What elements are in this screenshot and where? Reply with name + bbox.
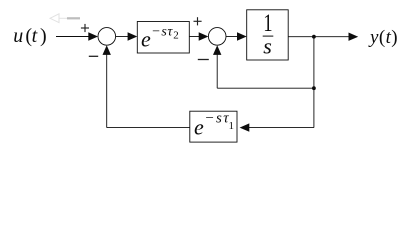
wire integrator to output: [288, 36, 350, 38]
svg-text:−sτ: −sτ: [151, 25, 173, 40]
svg-text:1: 1: [229, 120, 235, 132]
arrowhead into block tau2: [128, 32, 138, 40]
wire block tau2 to summing junction S2: [189, 36, 200, 38]
wire S1 to block tau2: [116, 36, 130, 38]
svg-text:2: 2: [173, 30, 179, 42]
svg-text:y(t): y(t): [368, 27, 398, 48]
arrowhead into S2: [199, 32, 209, 40]
integrator block 1/s: [247, 10, 289, 60]
block e^-s*tau1: [190, 111, 237, 142]
minus sign at S1: [89, 55, 98, 57]
watermark dash (faint): [67, 17, 80, 19]
watermark cursor arrow (faint): [50, 14, 67, 23]
inner feedback wire vertical up to S2: [216, 53, 218, 89]
output arrowhead: [349, 33, 359, 41]
inner feedback wire horizontal: [217, 87, 314, 89]
plus sign at S2: [194, 17, 202, 25]
svg-text:u(t): u(t): [13, 25, 49, 47]
wire u(t) to summing junction S1: [56, 36, 90, 38]
wire branch down from output node: [313, 37, 315, 88]
svg-text:1: 1: [263, 8, 272, 36]
outer feedback wire down: [313, 88, 315, 127]
svg-text:−sτ: −sτ: [205, 111, 231, 127]
branch node dot at inner/outer feedback split: [312, 86, 316, 90]
wire S2 to integrator block: [226, 36, 239, 38]
outer feedback wire vertical up to S1: [106, 53, 108, 128]
summing junction S1: [98, 28, 116, 46]
arrowhead up into S1 bottom: [103, 45, 111, 55]
outer feedback wire from tau1 to left: [107, 127, 190, 129]
arrowhead up into S2 bottom: [213, 45, 221, 55]
outer feedback wire horizontal to block tau1: [248, 127, 314, 129]
minus sign at S2: [198, 59, 209, 61]
summing junction S2: [208, 28, 226, 46]
arrowhead into S1: [88, 32, 98, 40]
fraction bar: [263, 35, 274, 37]
block e^-s*tau2: [137, 22, 189, 54]
svg-text:s: s: [263, 34, 272, 59]
plus sign at S1: [81, 24, 89, 32]
arrowhead into integrator: [237, 32, 247, 40]
svg-text:e: e: [194, 115, 204, 140]
svg-text:e: e: [141, 26, 151, 51]
branch node dot on output wire: [312, 35, 316, 39]
arrowhead left into block tau1: [240, 123, 250, 131]
